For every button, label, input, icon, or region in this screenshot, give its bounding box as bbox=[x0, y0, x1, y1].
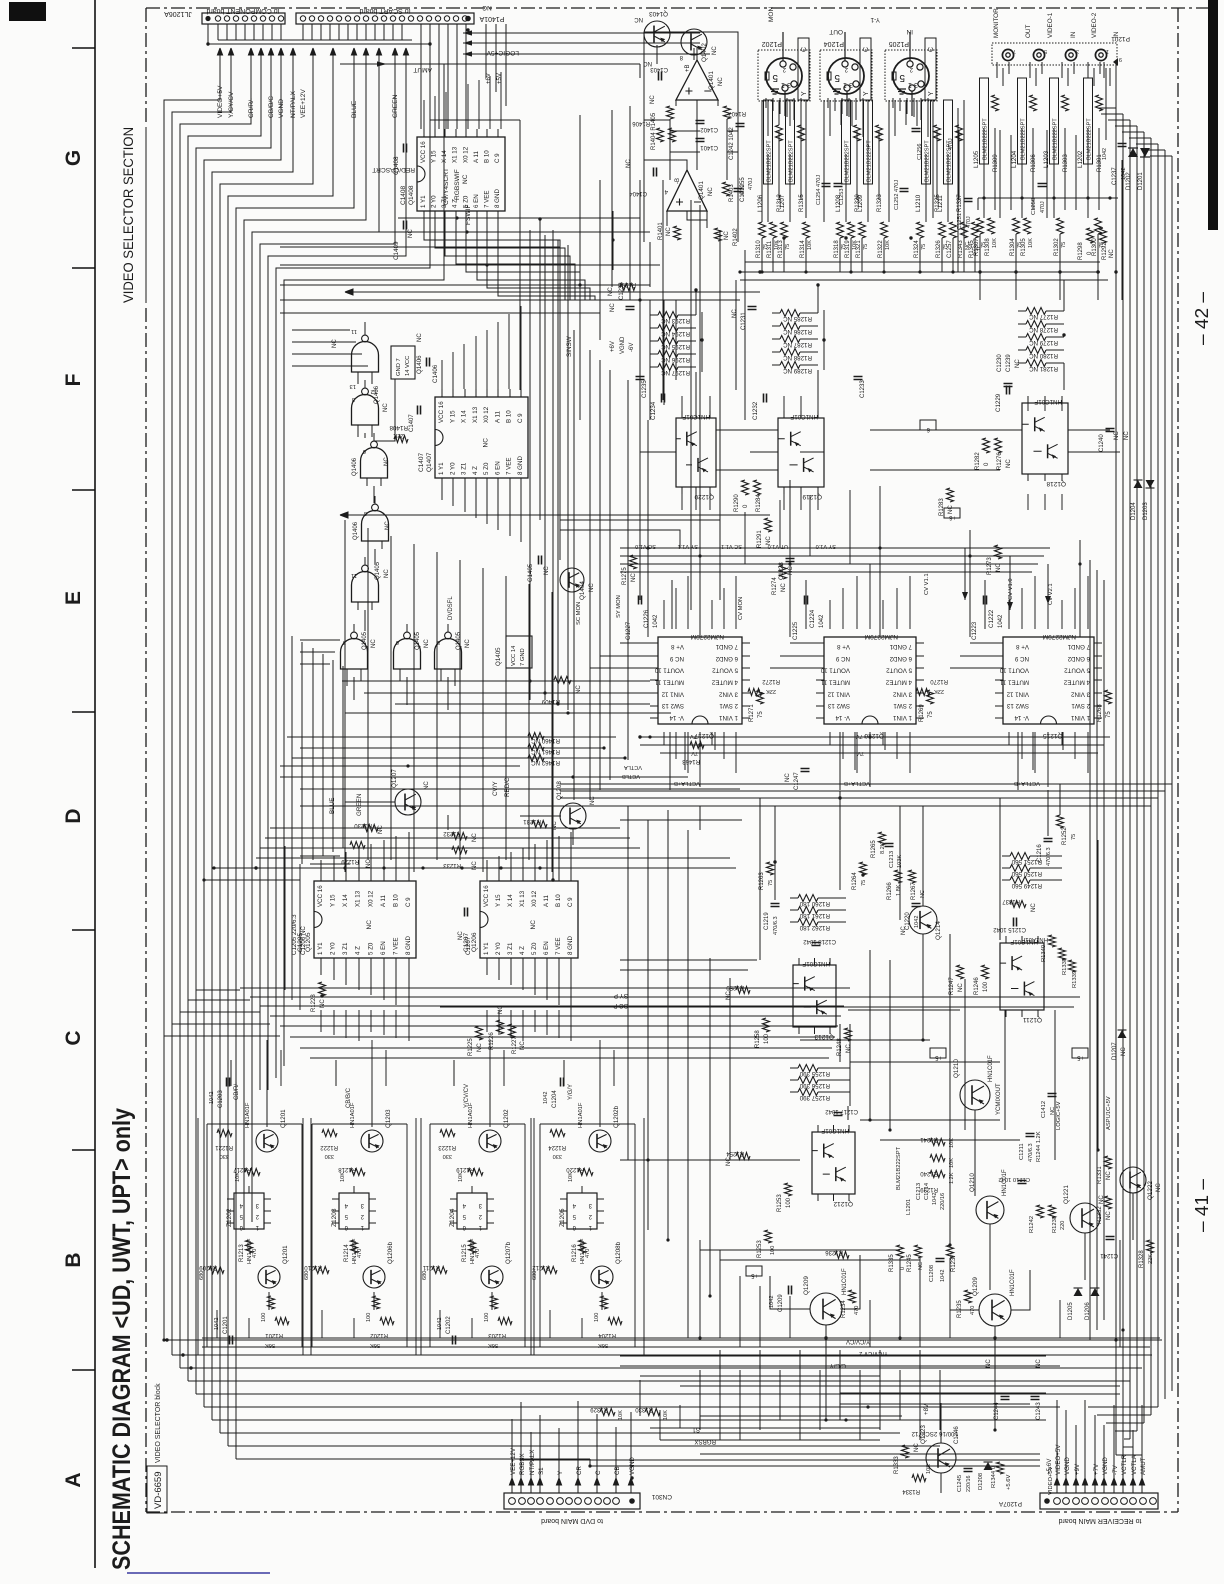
wire rca jacks down bbox=[980, 68, 1122, 300]
svg-text:100: 100 bbox=[786, 1197, 792, 1208]
svg-text:4 Z: 4 Z bbox=[472, 466, 479, 475]
svg-text:680: 680 bbox=[532, 1271, 538, 1280]
resistor R1231 R1232 R1233 bbox=[532, 821, 547, 828]
svg-text:IN: IN bbox=[1070, 31, 1077, 38]
boxed label +6 bbox=[944, 508, 960, 518]
svg-text:Q1209: Q1209 bbox=[972, 1277, 979, 1296]
wire SY SC P bus bbox=[430, 997, 1080, 1007]
resistor R1234 470 bbox=[849, 1290, 856, 1303]
transistor Q1223 bbox=[926, 1443, 956, 1473]
svg-text:R1253: R1253 bbox=[777, 1194, 783, 1212]
svg-text:NC: NC bbox=[712, 46, 718, 55]
svg-text:L1205: L1205 bbox=[973, 150, 980, 168]
svg-text:100: 100 bbox=[983, 981, 989, 992]
svg-text:NC: NC bbox=[384, 569, 390, 578]
svg-text:100: 100 bbox=[261, 1313, 267, 1322]
svg-text:NC: NC bbox=[718, 77, 724, 86]
svg-text:R1268: R1268 bbox=[1097, 704, 1103, 722]
svg-text:R1293 NC: R1293 NC bbox=[661, 317, 690, 324]
diode D1208 resistor R1344 bbox=[984, 1462, 993, 1470]
svg-text:NC 9: NC 9 bbox=[835, 655, 850, 662]
svg-text:VCTLB: VCTLB bbox=[622, 773, 640, 779]
wire right bus bottom elbows bbox=[1088, 1407, 1158, 1455]
svg-text:A 11: A 11 bbox=[473, 151, 480, 163]
svg-text:1 VIN1: 1 VIN1 bbox=[893, 714, 912, 721]
wire P1207A risers bbox=[1057, 1400, 1142, 1478]
svg-text:X1 13: X1 13 bbox=[452, 146, 459, 163]
resistor 56K bbox=[608, 1318, 622, 1325]
capacitor C1245 220/16 bbox=[964, 1469, 973, 1472]
svg-text:220/16: 220/16 bbox=[966, 1476, 972, 1493]
svg-text:VOUT1 10: VOUT1 10 bbox=[999, 667, 1029, 674]
registration black block top-left bbox=[9, 2, 46, 21]
svg-text:C1216: C1216 bbox=[1037, 844, 1043, 862]
svg-text:470J: 470J bbox=[966, 216, 972, 228]
resistor R1223 330 bbox=[440, 1130, 455, 1137]
svg-text:B 10: B 10 bbox=[555, 894, 562, 907]
svg-text:R1210: R1210 bbox=[304, 1264, 322, 1270]
svg-text:B: B bbox=[62, 1252, 85, 1267]
svg-text:R1254: R1254 bbox=[726, 1150, 744, 1156]
svg-text:R1284: R1284 bbox=[756, 494, 762, 512]
svg-text:R1315: R1315 bbox=[799, 194, 805, 212]
svg-text:NC: NC bbox=[1114, 431, 1120, 440]
svg-text:C1215 1042: C1215 1042 bbox=[993, 926, 1026, 932]
svg-text:Q1206: Q1206 bbox=[471, 932, 478, 952]
wire plus minus 7V bus bbox=[640, 737, 1110, 753]
junction dots pass3 bbox=[455, 216, 458, 219]
svg-text:HN1A01F: HN1A01F bbox=[352, 1238, 358, 1264]
svg-text:R1235: R1235 bbox=[957, 1300, 963, 1318]
svg-text:MUTE1 11: MUTE1 11 bbox=[654, 679, 684, 686]
svg-text:Q1215: Q1215 bbox=[1043, 732, 1063, 739]
svg-text:Y: Y bbox=[557, 1471, 564, 1475]
svg-text:R1266: R1266 bbox=[887, 882, 893, 900]
svg-text:V- 14: V- 14 bbox=[835, 714, 850, 721]
resistor R1409 bbox=[554, 677, 571, 684]
svg-text:C1203: C1203 bbox=[218, 1090, 224, 1108]
svg-text:R1213: R1213 bbox=[239, 1244, 245, 1262]
svg-text:CB/B/C: CB/B/C bbox=[346, 1087, 352, 1108]
svg-text:X 14: X 14 bbox=[507, 894, 514, 907]
svg-text:R1334: R1334 bbox=[902, 1488, 920, 1494]
svg-text:– 41 –: – 41 – bbox=[1192, 1179, 1212, 1232]
svg-text:Q1405: Q1405 bbox=[362, 631, 368, 650]
svg-text:R1343: R1343 bbox=[958, 240, 964, 258]
svg-text:R1313: R1313 bbox=[778, 240, 784, 258]
svg-text:5: 5 bbox=[772, 72, 778, 83]
wire right bus top elbows bbox=[1098, 108, 1172, 156]
svg-text:+6V: +6V bbox=[486, 73, 492, 84]
svg-text:7 VEE: 7 VEE bbox=[555, 937, 562, 955]
junction dots bbox=[428, 42, 431, 45]
wire center tall verticals set bbox=[292, 520, 552, 872]
ic Q1206 video switch bbox=[480, 881, 578, 958]
svg-text:R1261 180: R1261 180 bbox=[799, 912, 830, 919]
svg-text:C1235: C1235 bbox=[642, 380, 648, 398]
svg-text:470/6.3: 470/6.3 bbox=[1046, 847, 1052, 866]
right edge black binding bar bbox=[1208, 0, 1218, 230]
junction dots rca bus bbox=[982, 196, 985, 199]
svg-text:R1321: R1321 bbox=[856, 240, 862, 258]
wire right-center mesh horizontals bbox=[620, 960, 1120, 1454]
ic Q1407 video switch bbox=[435, 397, 528, 478]
svg-text:R1277 NC: R1277 NC bbox=[1029, 313, 1058, 320]
capacitor C1405 bbox=[539, 556, 542, 565]
svg-text:1042: 1042 bbox=[819, 614, 825, 628]
svg-text:R1246: R1246 bbox=[974, 977, 980, 995]
wire NJM top bus SC SY bbox=[620, 548, 1050, 572]
resistors R1460 R1461 R1462 bbox=[528, 733, 544, 740]
svg-text:VCC 16: VCC 16 bbox=[420, 141, 427, 163]
svg-text:2 SW1: 2 SW1 bbox=[1071, 702, 1090, 709]
svg-text:NC: NC bbox=[1109, 249, 1115, 258]
resistor R1463 bbox=[690, 742, 704, 749]
svg-text:R1201: R1201 bbox=[265, 1332, 283, 1338]
transistor Q1221 bbox=[1070, 1203, 1100, 1233]
dual transistor Q1212 bbox=[812, 1132, 855, 1194]
svg-text:X 14: X 14 bbox=[461, 410, 468, 423]
svg-text:1042: 1042 bbox=[940, 1270, 946, 1282]
svg-text:R1262 180: R1262 180 bbox=[799, 924, 830, 931]
svg-text:Q1221: Q1221 bbox=[1063, 1185, 1070, 1204]
svg-text:C1407: C1407 bbox=[418, 452, 425, 472]
svg-text:VIDEO+5V: VIDEO+5V bbox=[1048, 1466, 1054, 1495]
svg-text:Q1211: Q1211 bbox=[1023, 1016, 1042, 1023]
svg-text:R1303: R1303 bbox=[1063, 154, 1069, 172]
resistor R1230 R1229 bbox=[363, 825, 378, 832]
svg-text:IN: IN bbox=[906, 28, 913, 35]
svg-text:VIDEO-2: VIDEO-2 bbox=[1091, 12, 1098, 38]
junction dots pass4 bbox=[646, 1158, 649, 1161]
svg-text:C1247: C1247 bbox=[794, 772, 800, 790]
svg-text:R1267: R1267 bbox=[911, 882, 917, 900]
svg-text:X0 12: X0 12 bbox=[367, 890, 374, 907]
svg-text:NC: NC bbox=[1031, 903, 1037, 912]
svg-text:R1259: R1259 bbox=[726, 984, 744, 990]
transistor Q1208 bbox=[560, 803, 586, 829]
svg-text:R1231: R1231 bbox=[523, 818, 541, 824]
svg-text:R1403: R1403 bbox=[729, 184, 735, 202]
wire arrows mid right CV bbox=[965, 548, 1048, 610]
svg-text:75: 75 bbox=[1071, 834, 1077, 840]
capacitor C1237 diodes D1202 D1201 bbox=[1118, 144, 1127, 147]
svg-text:3: 3 bbox=[787, 81, 791, 88]
svg-text:470J: 470J bbox=[948, 138, 954, 150]
svg-text:ASPU1C+5V: ASPU1C+5V bbox=[1106, 1096, 1112, 1130]
svg-text:C1223: C1223 bbox=[971, 621, 978, 640]
svg-text:LOGIC+5V: LOGIC+5V bbox=[1056, 1101, 1062, 1130]
svg-text:Q1405: Q1405 bbox=[456, 631, 462, 650]
blue reference line bottom-left bbox=[127, 1572, 270, 1574]
boxed label +5 third bbox=[1072, 1048, 1088, 1058]
wire VCTL vertical drops bbox=[700, 560, 1104, 1340]
boxed label +5 first bbox=[746, 1266, 762, 1276]
capacitor C1219 C1220 bbox=[771, 904, 780, 907]
svg-text:Q1406: Q1406 bbox=[353, 521, 359, 540]
svg-text:14 VCC: 14 VCC bbox=[405, 356, 411, 376]
svg-text:NC: NC bbox=[1121, 1047, 1127, 1056]
wire trunk verticals x520-660 bbox=[520, 115, 745, 710]
svg-text:AMUT: AMUT bbox=[1140, 1457, 1147, 1475]
wire left vertical bus bbox=[164, 64, 444, 1459]
svg-text:R1305: R1305 bbox=[1021, 238, 1027, 256]
svg-text:6 EN: 6 EN bbox=[543, 941, 550, 955]
svg-text:Q1405: Q1405 bbox=[375, 561, 381, 580]
svg-text:NC: NC bbox=[914, 1443, 920, 1452]
svg-text:Q1403: Q1403 bbox=[649, 10, 668, 17]
svg-text:NC: NC bbox=[901, 926, 907, 935]
wire Q1408 pins down bbox=[424, 219, 595, 300]
resistors R1225 R1226 R1227 bbox=[476, 1026, 483, 1040]
svg-text:VCC 14: VCC 14 bbox=[511, 645, 517, 666]
resistor 56K bbox=[498, 1318, 512, 1325]
svg-text:R1225: R1225 bbox=[468, 1038, 474, 1056]
svg-text:RGBSX: RGBSX bbox=[519, 1453, 526, 1475]
svg-text:V- 14: V- 14 bbox=[1014, 714, 1029, 721]
diode D1207 C1241 bbox=[1118, 1030, 1127, 1038]
wire Q1407 pins down bbox=[442, 486, 521, 542]
svg-text:R1309: R1309 bbox=[993, 154, 999, 172]
resistors R1290 R1284 R1282 R1276 bbox=[742, 480, 749, 495]
svg-text:P1401A: P1401A bbox=[479, 15, 504, 22]
din connector P1204 bbox=[820, 50, 872, 101]
wire drops to channel blocks bbox=[231, 1060, 602, 1310]
resistor R1217 10K bbox=[245, 1169, 260, 1176]
svg-text:VIN1 12: VIN1 12 bbox=[1006, 690, 1029, 697]
svg-text:8 GND: 8 GND bbox=[494, 189, 501, 208]
svg-text:R1286 NC: R1286 NC bbox=[783, 328, 812, 335]
svg-text:3: 3 bbox=[343, 639, 346, 645]
svg-text:4 MUTE2: 4 MUTE2 bbox=[1063, 679, 1090, 686]
resistor R1218 10K bbox=[350, 1169, 365, 1176]
wire bottom verticals bbox=[700, 1350, 940, 1440]
svg-text:10K: 10K bbox=[458, 1172, 464, 1182]
resistor R1337 C1215 bbox=[1010, 901, 1026, 908]
svg-text:DVDSFL: DVDSFL bbox=[448, 596, 454, 620]
svg-text:R1306: R1306 bbox=[1031, 154, 1037, 172]
svg-text:D1204: D1204 bbox=[1131, 502, 1137, 520]
svg-text:NC: NC bbox=[918, 1262, 924, 1270]
wire nested center bus below ICs bbox=[240, 988, 850, 1058]
svg-text:5 VOUT2: 5 VOUT2 bbox=[712, 667, 738, 674]
svg-text:Y-1: Y-1 bbox=[870, 16, 880, 23]
svg-text:C1410: C1410 bbox=[740, 184, 746, 202]
svg-text:22K: 22K bbox=[934, 688, 944, 694]
svg-text:330: 330 bbox=[553, 1153, 562, 1159]
svg-text:7 GND1: 7 GND1 bbox=[889, 643, 912, 650]
svg-text:NC: NC bbox=[371, 639, 377, 648]
svg-text:+8V: +8V bbox=[923, 1403, 930, 1415]
wire mid horizontals y700 band bbox=[280, 681, 740, 789]
svg-text:to DVD MAIN board: to DVD MAIN board bbox=[541, 1517, 603, 1524]
svg-text:NC: NC bbox=[472, 833, 478, 842]
svg-text:R1245: R1245 bbox=[907, 1254, 913, 1272]
diodes D1204 D1203 bbox=[1134, 480, 1143, 488]
wire q1205 q1206 long pin drops bbox=[321, 1010, 571, 1041]
svg-text:R1344 0: R1344 0 bbox=[991, 1466, 997, 1488]
svg-text:A: A bbox=[62, 1472, 85, 1487]
svg-text:75: 75 bbox=[863, 244, 869, 250]
svg-text:R1287 NC: R1287 NC bbox=[783, 341, 812, 348]
svg-text:C1222: C1222 bbox=[988, 609, 995, 628]
svg-text:10K: 10K bbox=[663, 1410, 669, 1420]
svg-text:NC: NC bbox=[666, 227, 672, 236]
svg-text:6 GND2: 6 GND2 bbox=[889, 655, 912, 662]
svg-text:VIDEO SELECTOR block: VIDEO SELECTOR block bbox=[155, 1383, 162, 1463]
svg-text:R1295 NC: R1295 NC bbox=[661, 343, 690, 350]
svg-text:Q1214: Q1214 bbox=[935, 921, 942, 940]
svg-text:BLM21B222SPT: BLM21B222SPT bbox=[983, 118, 989, 160]
svg-text:3 VIN2: 3 VIN2 bbox=[1071, 690, 1090, 697]
wire rca collector bus y198 bbox=[978, 198, 1118, 210]
resistor 100 bbox=[373, 1296, 380, 1309]
svg-text:R1223: R1223 bbox=[438, 1144, 456, 1150]
svg-text:R1278 NC: R1278 NC bbox=[1029, 326, 1058, 333]
svg-text:4 Z: 4 Z bbox=[519, 946, 526, 955]
svg-text:R1241: R1241 bbox=[920, 1136, 938, 1142]
svg-text:75: 75 bbox=[1061, 242, 1067, 248]
svg-text:NC: NC bbox=[650, 95, 656, 104]
svg-text:NC: NC bbox=[482, 4, 492, 11]
svg-text:C1230: C1230 bbox=[997, 354, 1003, 372]
svg-text:3 Z1: 3 Z1 bbox=[441, 195, 448, 208]
svg-text:Q1405: Q1405 bbox=[415, 631, 421, 650]
svg-text:D1207: D1207 bbox=[1112, 1042, 1118, 1060]
capacitor C1247 bbox=[801, 769, 810, 772]
svg-text:VCC 16: VCC 16 bbox=[317, 885, 324, 907]
svg-text:NC: NC bbox=[384, 457, 390, 466]
svg-text:BLM21B222SPT: BLM21B222SPT bbox=[925, 140, 931, 182]
svg-text:B 10: B 10 bbox=[483, 150, 490, 163]
svg-text:5 Z0: 5 Z0 bbox=[483, 462, 490, 475]
ic Q1408 video switch bbox=[417, 137, 505, 211]
svg-text:Q1401: Q1401 bbox=[698, 181, 705, 200]
svg-text:VCTLR: VCTLR bbox=[1121, 1454, 1128, 1475]
svg-text:R1331: R1331 bbox=[1097, 1166, 1103, 1184]
diodes D1205 D1206 bbox=[1074, 1288, 1083, 1296]
svg-text:1 Y1: 1 Y1 bbox=[420, 195, 427, 208]
svg-text:+6: +6 bbox=[948, 514, 956, 520]
transistor Q1210 HN1C01F bbox=[960, 1080, 990, 1110]
wire q1205 upper bus elbows bbox=[285, 846, 350, 1010]
svg-text:C1204: C1204 bbox=[552, 1090, 558, 1108]
svg-text:C1202: C1202 bbox=[446, 1316, 452, 1334]
svg-text:R1253: R1253 bbox=[757, 1240, 763, 1258]
svg-text:R1314: R1314 bbox=[800, 240, 806, 258]
svg-text:75: 75 bbox=[768, 880, 774, 886]
svg-text:C1239: C1239 bbox=[1006, 354, 1012, 372]
svg-text:L1210: L1210 bbox=[915, 194, 922, 212]
svg-text:R1215: R1215 bbox=[462, 1244, 468, 1262]
resistor R1248 bbox=[845, 1028, 852, 1041]
svg-text:10K: 10K bbox=[568, 1172, 574, 1182]
resistor 100 bbox=[491, 1296, 498, 1309]
svg-text:NC: NC bbox=[408, 229, 414, 238]
svg-text:X1 13: X1 13 bbox=[472, 406, 479, 423]
svg-text:R1326: R1326 bbox=[936, 240, 942, 258]
ic Q1406 power box bbox=[391, 346, 415, 379]
svg-text:SC V1.1: SC V1.1 bbox=[721, 543, 742, 549]
nand gate Q1405d bbox=[435, 639, 462, 670]
capacitor C1227 C1226 bbox=[639, 596, 642, 605]
svg-text:RED/C: RED/C bbox=[504, 777, 511, 797]
svg-text:4 MUTE2: 4 MUTE2 bbox=[885, 679, 912, 686]
svg-text:B 10: B 10 bbox=[392, 894, 399, 907]
resistor 56K bbox=[380, 1318, 394, 1325]
transistor Q1402 bbox=[681, 29, 707, 55]
svg-text:GREEN: GREEN bbox=[356, 793, 363, 816]
svg-text:R1296 NC: R1296 NC bbox=[661, 356, 690, 363]
wire DIN pin drops dense bbox=[762, 98, 933, 222]
svg-text:NC: NC bbox=[634, 16, 643, 22]
capacitor C1223 C1222 bbox=[984, 596, 987, 605]
capacitor C1212 C1211 C1210 bbox=[1048, 1094, 1057, 1097]
din connector P1202 bbox=[758, 50, 810, 101]
svg-text:R1275: R1275 bbox=[622, 567, 628, 585]
svg-text:+5: +5 bbox=[934, 1054, 942, 1060]
svg-text:2 SW1: 2 SW1 bbox=[719, 702, 738, 709]
svg-text:R1232: R1232 bbox=[443, 830, 461, 836]
svg-text:2 SW1: 2 SW1 bbox=[893, 702, 912, 709]
svg-text:C1407: C1407 bbox=[409, 414, 415, 432]
resistor R1283 R1273 R1291 R1274 R1275 bbox=[947, 488, 954, 502]
svg-text:R1404 R1405: R1404 R1405 bbox=[651, 112, 657, 150]
svg-text:CV/Y: CV/Y bbox=[492, 781, 499, 796]
svg-text:VCC 16: VCC 16 bbox=[438, 401, 445, 423]
svg-text:10K: 10K bbox=[885, 240, 891, 250]
transistor Q1209b bbox=[979, 1294, 1011, 1326]
svg-text:R1250 560: R1250 560 bbox=[1011, 870, 1042, 877]
svg-text:+5: +5 bbox=[1076, 1054, 1084, 1060]
svg-text:L1209: L1209 bbox=[857, 194, 864, 212]
svg-text:220: 220 bbox=[1060, 1221, 1066, 1230]
svg-text:10K: 10K bbox=[807, 240, 813, 250]
svg-text:R1338: R1338 bbox=[1062, 958, 1068, 975]
svg-text:GND 7: GND 7 bbox=[396, 358, 402, 376]
svg-text:R1340: R1340 bbox=[1041, 945, 1047, 962]
svg-text:VOUT1 10: VOUT1 10 bbox=[820, 667, 850, 674]
svg-text:7 GND1: 7 GND1 bbox=[1067, 643, 1090, 650]
resistors R1241 R1240 R1239 10K 2K bbox=[930, 1139, 945, 1146]
svg-text:V- 14: V- 14 bbox=[669, 714, 684, 721]
capacitor C1230 C1239 bbox=[1004, 384, 1013, 387]
svg-text:R1264: R1264 bbox=[852, 872, 858, 890]
svg-text:HN1A01F: HN1A01F bbox=[470, 1238, 476, 1264]
svg-text:HN1C01F: HN1C01F bbox=[821, 1127, 849, 1134]
svg-text:1042: 1042 bbox=[998, 614, 1004, 628]
svg-text:NC: NC bbox=[378, 825, 384, 834]
svg-text:Q1404: Q1404 bbox=[579, 581, 586, 600]
wire bottom long horizontals bbox=[202, 1338, 1160, 1460]
svg-text:C1224: C1224 bbox=[809, 609, 816, 628]
svg-text:R1302: R1302 bbox=[1054, 238, 1060, 256]
svg-text:JL1206A: JL1206A bbox=[164, 10, 192, 17]
svg-text:D: D bbox=[62, 808, 85, 823]
svg-text:R1462 NC: R1462 NC bbox=[531, 759, 560, 766]
svg-text:8 GND: 8 GND bbox=[567, 936, 574, 955]
svg-text:C 9: C 9 bbox=[494, 153, 501, 163]
svg-text:75: 75 bbox=[1106, 711, 1112, 718]
svg-text:CV V2.1: CV V2.1 bbox=[1048, 583, 1054, 605]
svg-text:NC: NC bbox=[708, 187, 714, 196]
svg-text:C1218 1042: C1218 1042 bbox=[803, 938, 836, 944]
svg-text:SINSW: SINSW bbox=[566, 336, 573, 357]
svg-text:3 Z1: 3 Z1 bbox=[461, 462, 468, 475]
resistor R1228 bbox=[319, 982, 326, 996]
svg-text:Y 15: Y 15 bbox=[330, 894, 337, 907]
svg-text:75: 75 bbox=[861, 880, 867, 886]
